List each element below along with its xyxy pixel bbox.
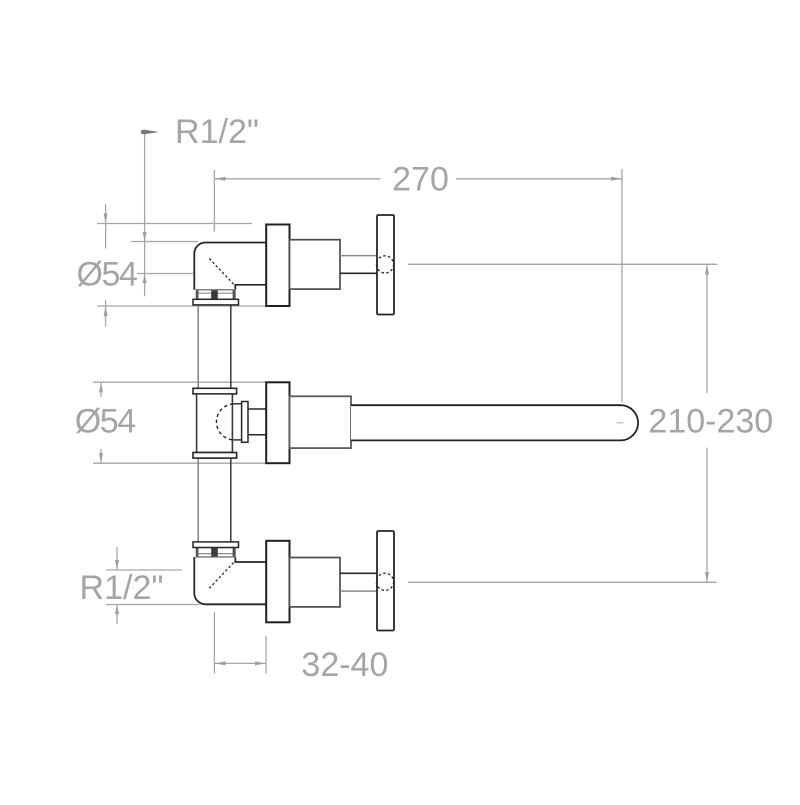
svg-text:Ø54: Ø54 xyxy=(75,403,136,441)
arrow 32-40 right (points right, inside) xyxy=(255,661,266,665)
dim R1/2 top leader vertical xyxy=(144,132,146,296)
body top xyxy=(290,240,341,289)
stem top xyxy=(340,255,377,257)
tee lower band xyxy=(193,453,237,459)
dim O54 top extension line lower xyxy=(97,305,266,307)
dim 210-230 line upper segment xyxy=(706,264,708,393)
pipe between tee and bottom valve xyxy=(198,458,231,541)
svg-text:R1/2": R1/2" xyxy=(175,113,259,151)
spout cap center tick xyxy=(617,422,624,424)
elbow top chamfer diagonal xyxy=(209,259,233,285)
body middle xyxy=(290,396,352,448)
elbow bottom outline xyxy=(194,557,266,604)
connector bar xyxy=(242,402,248,443)
dim 270 line right segment xyxy=(456,178,622,180)
handle hub circle bottom xyxy=(376,573,393,590)
arrow 270 right xyxy=(611,177,622,181)
R1/2 top leader arrow bar xyxy=(141,130,159,135)
union nut top xyxy=(196,290,235,300)
arrow R1/2 top lower (points up) xyxy=(143,274,147,283)
elbow top outline xyxy=(194,243,266,290)
handle bar bottom xyxy=(377,531,394,631)
dim O54 top line upper segment xyxy=(105,204,107,249)
dim O54 middle extension line upper xyxy=(93,381,266,383)
dome seat arc xyxy=(216,404,233,440)
dim 210-230 line lower segment xyxy=(706,448,708,583)
dim 32-40 right extension line xyxy=(265,636,267,674)
dim O54 middle line upper segment xyxy=(100,382,102,397)
spout xyxy=(351,405,638,440)
dim 32-40 line xyxy=(214,662,266,664)
arrow O54 middle upper (points up, inside) xyxy=(99,383,103,393)
dim O54 middle extension line lower xyxy=(93,462,266,464)
union band top xyxy=(193,299,239,305)
tee body xyxy=(197,394,233,453)
dim 270 line left segment xyxy=(214,178,380,180)
arrow 210-230 bottom (points down, inside) xyxy=(705,572,709,582)
arrow 270 left xyxy=(215,177,226,181)
arrow O54 top lower (points up to ext) xyxy=(104,306,108,316)
elbow bottom chamfer diagonal xyxy=(209,563,233,589)
arrow R1/2 bottom upper (points down) xyxy=(115,560,119,570)
dim 32-40 left extension line xyxy=(213,612,215,674)
elbow top inner corner xyxy=(235,285,266,290)
stem bottom xyxy=(340,572,377,574)
handle hub circle top xyxy=(376,256,393,273)
dim 270 left extension line xyxy=(213,170,215,232)
union nut bottom xyxy=(196,548,235,558)
flange middle xyxy=(266,382,289,463)
arrow O54 top upper (points down to ext) xyxy=(104,214,108,224)
svg-text:R1/2": R1/2" xyxy=(80,569,164,607)
svg-text:210-230: 210-230 xyxy=(648,403,773,441)
mid stem lines xyxy=(248,408,266,410)
elbow bottom inner corner xyxy=(235,557,266,562)
dim R1/2 top extension line lower xyxy=(137,273,193,275)
arrow 210-230 top (points up, inside) xyxy=(705,265,709,275)
svg-text:270: 270 xyxy=(392,161,449,199)
dim R1/2 bottom extension line upper xyxy=(106,569,182,571)
svg-text:32-40: 32-40 xyxy=(301,646,388,684)
union band bottom xyxy=(193,542,239,548)
svg-text:Ø54: Ø54 xyxy=(76,256,137,294)
dim O54 middle line lower segment xyxy=(100,449,102,463)
dim R1/2 bottom line lower segment xyxy=(116,605,118,624)
arrow R1/2 bottom lower (points up) xyxy=(115,605,119,614)
dim 210-230 bottom extension line xyxy=(408,581,717,583)
dim O54 top extension line upper xyxy=(97,223,252,225)
handle bar top xyxy=(377,215,394,315)
arrow R1/2 top upper (points down) xyxy=(143,232,147,241)
dim R1/2 top extension line upper xyxy=(131,241,198,243)
dim 270 right extension line xyxy=(621,169,623,402)
pipe between top valve and tee xyxy=(198,305,231,388)
dim 210-230 top extension line xyxy=(408,263,718,265)
flange bottom xyxy=(266,541,289,623)
flange top xyxy=(266,225,289,307)
body bottom xyxy=(290,558,341,607)
dim O54 top line lower segment xyxy=(105,300,107,327)
dome top and bottom edges xyxy=(233,403,241,405)
dim R1/2 bottom line upper segment xyxy=(116,547,118,570)
dim R1/2 bottom extension line lower xyxy=(106,604,200,606)
tee upper band xyxy=(193,388,237,394)
arrow O54 middle lower (points down, inside) xyxy=(99,453,103,463)
arrow 32-40 left (points left, inside) xyxy=(215,661,226,665)
